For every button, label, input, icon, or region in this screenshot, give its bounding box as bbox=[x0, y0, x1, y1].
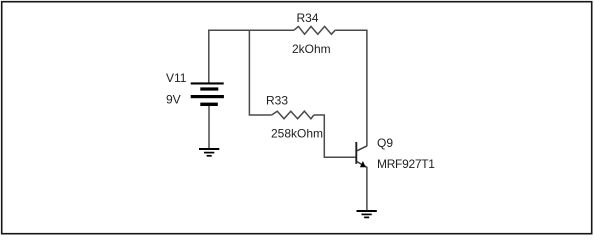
wire: battery + up to top rail and right to R34 bbox=[209, 30, 294, 83]
ground: battery bbox=[199, 149, 219, 156]
resistor R34 bbox=[294, 26, 335, 34]
svg-text:V11: V11 bbox=[166, 71, 187, 85]
transistor Q9 bbox=[356, 142, 367, 167]
svg-text:9V: 9V bbox=[166, 93, 181, 107]
wire: R33 to Q9 base bbox=[314, 115, 356, 157]
wire: battery - down to ground bbox=[208, 106, 210, 148]
wire: R34 to Q9 collector bbox=[335, 30, 367, 146]
svg-text:R34: R34 bbox=[297, 11, 319, 25]
svg-text:R33: R33 bbox=[266, 94, 288, 108]
svg-text:2kOhm: 2kOhm bbox=[292, 42, 331, 56]
svg-text:MRF927T1: MRF927T1 bbox=[377, 157, 435, 171]
battery V11 bbox=[191, 82, 224, 106]
svg-text:258kOhm: 258kOhm bbox=[271, 127, 323, 141]
svg-text:Q9: Q9 bbox=[377, 136, 393, 150]
wire: top-rail junction down to R33 bbox=[249, 30, 271, 115]
ground: emitter bbox=[357, 211, 377, 217]
wire: Q9 emitter down to ground bbox=[366, 167, 368, 211]
resistor R33 bbox=[272, 111, 314, 119]
